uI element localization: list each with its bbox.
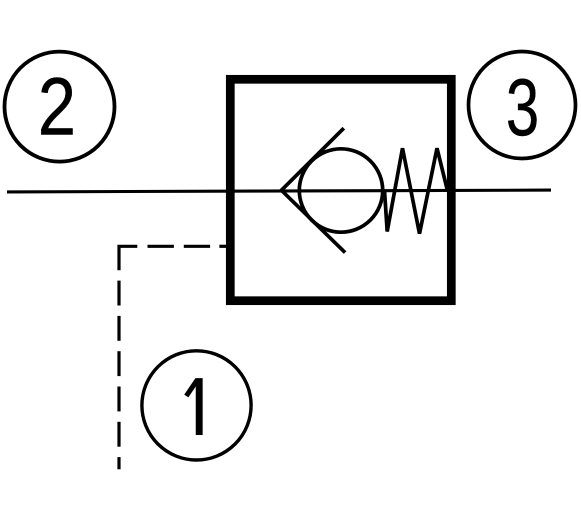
port 3 circle	[469, 52, 576, 159]
port 1 circle	[142, 351, 251, 460]
wire: pilot vertical dash e	[117, 387, 120, 412]
wire: pilot vertical dash f	[117, 422, 120, 447]
wire: pilot horizontal dash c	[184, 245, 210, 248]
wire: pilot horizontal dash d	[219, 245, 231, 248]
port 2 circle	[5, 52, 115, 162]
port 1 label: flag	[186, 380, 197, 397]
wire: main flow line from port 2 to port 3	[7, 190, 551, 192]
spring	[385, 148, 448, 233]
wire: pilot vertical dash d	[117, 351, 120, 376]
check valve poppet seat V	[281, 128, 345, 252]
svg-text:3: 3	[506, 62, 539, 153]
svg-text:2: 2	[38, 61, 76, 152]
wire: pilot corner dash	[119, 246, 137, 270]
check valve ball	[299, 149, 382, 232]
valve body box	[230, 79, 451, 300]
wire: pilot vertical dash b	[117, 281, 120, 306]
wire: pilot horizontal dash b	[148, 245, 174, 248]
pilot signal line (dashed) from port 1 to valve	[119, 246, 231, 469]
port 1 label: stem	[196, 378, 203, 435]
wire: pilot vertical dash g	[117, 457, 120, 469]
wire: pilot vertical dash c	[117, 316, 120, 341]
